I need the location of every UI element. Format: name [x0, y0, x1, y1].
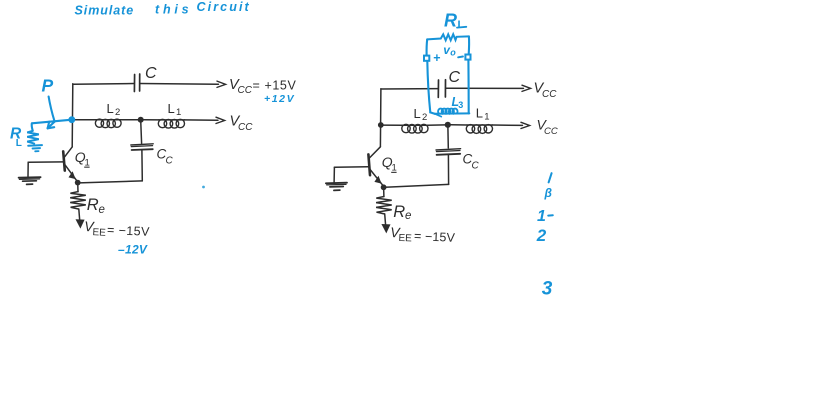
label L2 (left)	[107, 101, 121, 118]
svg-text:CC: CC	[238, 122, 253, 133]
inductor L1 (right)	[466, 125, 492, 134]
probe box left side (blue)	[426, 39, 429, 55]
wire: emitter node into resistor Re	[77, 185, 79, 191]
blue node dot	[68, 116, 75, 123]
svg-text:C: C	[166, 156, 174, 167]
arrowhead VCC mid (right)	[521, 122, 530, 128]
wire: mid rail from node P to L2	[73, 119, 97, 121]
ground (left circuit)	[19, 176, 41, 179]
svg-text:1: 1	[537, 208, 546, 225]
svg-text:L: L	[16, 138, 22, 149]
label VCC = +15V	[229, 77, 296, 96]
transistor Q1 (left): collector lead	[64, 147, 72, 158]
probe box bottom baseline (blue)	[435, 112, 470, 114]
wire: node down to Cc	[140, 123, 143, 144]
label L3 (blue)	[452, 95, 464, 110]
inductor L2 (left)	[95, 119, 121, 128]
svg-text:Simulate: Simulate	[75, 4, 135, 18]
wire: top rail right of capacitor C, to arrow	[140, 83, 219, 86]
terminal square right (blue)	[465, 55, 470, 60]
svg-text:–12V: –12V	[118, 242, 148, 256]
label Vcc mid (right)	[537, 117, 558, 137]
blue wire from node to RL	[32, 120, 72, 124]
svg-text:L: L	[168, 101, 175, 116]
label Re (left)	[87, 196, 105, 216]
label RL (blue, right)	[444, 10, 465, 31]
node: emitter junction (left)	[75, 180, 81, 186]
ground (blue, left)	[28, 144, 42, 147]
svg-text:1: 1	[176, 107, 181, 118]
wire: top rail left of capacitor C	[73, 83, 134, 86]
fragment slash	[549, 173, 552, 182]
label RL (blue, left)	[10, 126, 22, 150]
wire: bottom rail (right)	[385, 184, 449, 187]
svg-text:2: 2	[115, 107, 120, 118]
svg-text:CC: CC	[544, 126, 558, 137]
wire: mid rail to L2 (right)	[381, 124, 403, 126]
svg-text:e: e	[99, 204, 105, 216]
wire: base to ground drop	[28, 161, 63, 163]
terminal square left (blue)	[424, 56, 429, 61]
label Cc (left)	[157, 147, 174, 167]
svg-text:C: C	[145, 65, 157, 82]
resistor Re (left) scribble	[70, 192, 86, 209]
probe box right side (blue)	[468, 36, 471, 54]
label VEE = -15V (left)	[84, 218, 151, 241]
svg-text:C: C	[449, 69, 461, 86]
resistor RL (blue, left)	[27, 131, 39, 144]
transistor Q1 (right): collector lead	[369, 147, 380, 158]
svg-text:CC: CC	[238, 85, 253, 96]
label L1 (right)	[476, 106, 490, 123]
svg-text:+: +	[433, 51, 440, 65]
label Q1 (left)	[75, 149, 90, 168]
label Q1 (right)	[382, 154, 397, 173]
svg-text:2: 2	[422, 112, 427, 123]
svg-text:P: P	[42, 76, 54, 96]
transistor Q1 (left): emitter lead	[65, 164, 78, 181]
label VEE = -15V (right)	[390, 224, 456, 246]
label Vcc top (right)	[534, 81, 558, 100]
wire + arrow down to VEE (left)	[79, 209, 80, 222]
svg-text:R: R	[87, 196, 99, 214]
wire: left vertical (collector riser)	[71, 84, 74, 147]
label Vcc (mid, left circuit)	[230, 114, 254, 133]
svg-text:e: e	[405, 210, 411, 222]
svg-text:R: R	[393, 203, 405, 221]
wire: emitter node into Re (right)	[383, 190, 385, 196]
+ vo - labels (blue)	[433, 43, 456, 65]
arrowhead VCC top rail	[217, 81, 226, 87]
svg-text:= +15V: = +15V	[253, 79, 297, 93]
ground (right circuit)	[326, 182, 347, 185]
svg-text:this: this	[155, 2, 192, 16]
svg-text:3: 3	[542, 279, 553, 300]
label RL subscript underline (blue)	[457, 26, 466, 29]
svg-text:EE: EE	[92, 227, 106, 239]
svg-text:+12V: +12V	[264, 93, 295, 105]
wire: mid rail to arrow (right)	[493, 124, 523, 126]
inductor L1 (left)	[158, 119, 184, 128]
inductor L2 (right)	[402, 124, 428, 133]
capacitor Cc plates (right)	[436, 149, 461, 150]
transistor Q1 (right): emitter lead	[370, 169, 383, 185]
transistor Q1 (right): emitter arrowhead	[374, 176, 381, 184]
svg-text:3: 3	[458, 100, 463, 110]
capacitor C plates	[133, 75, 135, 92]
arrowhead VCC top (right)	[522, 85, 531, 91]
wire: bottom rail to emitter node	[79, 181, 142, 183]
blue probe line from P	[49, 97, 55, 122]
inductor L3 loops (blue)	[438, 109, 457, 114]
svg-text:Circuit: Circuit	[197, 0, 251, 14]
wire: Cc down to bottom rail	[141, 150, 143, 181]
node: junction of mid rail and Cc branch	[138, 117, 144, 123]
label L2 (right)	[414, 106, 428, 123]
svg-text:L: L	[107, 101, 114, 116]
svg-text:R: R	[444, 10, 457, 30]
arrowhead VCC mid rail	[216, 117, 225, 123]
svg-text:C: C	[472, 161, 480, 172]
resistor RL (blue, right, horizontal zigzag)	[427, 34, 469, 40]
wire: base to ground (right)	[334, 166, 368, 169]
wire + arrow down to VEE (right)	[385, 214, 386, 226]
node: emitter junction (right)	[381, 184, 387, 190]
wire: mid rail L2 to node (right)	[428, 124, 446, 126]
svg-text:= −15V: = −15V	[107, 223, 151, 239]
transistor Q1 (left): base bar	[63, 151, 65, 170]
svg-text:1: 1	[484, 112, 489, 123]
wire: mid rail to arrow	[185, 119, 219, 121]
blue arrow at probe tip	[48, 122, 55, 129]
label Cc (right)	[463, 152, 480, 172]
capacitor Cc plates (left)	[131, 144, 153, 145]
transistor Q1 (right): base bar	[368, 154, 370, 175]
svg-text:β: β	[544, 186, 553, 200]
svg-text:L: L	[458, 19, 465, 31]
label Re (right)	[393, 203, 411, 222]
wire: mid rail node to L1	[144, 119, 160, 121]
resistor Re (right) scribble	[376, 197, 392, 214]
svg-text:CC: CC	[542, 89, 557, 100]
wire: Cc down to bottom rail (right)	[447, 155, 449, 184]
title: Simulate this Circuit (blue handwriting)	[75, 0, 251, 17]
wire: left vertical (collector riser, right circuit)	[379, 89, 382, 147]
node: mid junction (right)	[445, 122, 451, 128]
svg-text:EE: EE	[398, 233, 412, 245]
svg-text:o: o	[450, 47, 456, 57]
svg-text:L: L	[414, 106, 421, 121]
wire: mid rail between L2 and node	[121, 119, 138, 121]
svg-text:2: 2	[536, 226, 547, 245]
wire: node to L1 (right)	[451, 124, 468, 126]
wire: node down to Cc (right)	[447, 127, 449, 148]
label L1 (left)	[168, 101, 182, 118]
node: mid-rail left junction (right circuit)	[378, 122, 384, 128]
wire: top rail right of capacitor to arrow (right)	[446, 87, 524, 89]
transistor Q1 (left): emitter arrowhead	[69, 171, 76, 179]
svg-text:L: L	[476, 106, 483, 121]
svg-text:= −15V: = −15V	[414, 229, 456, 245]
blue speck	[202, 186, 205, 189]
capacitor C plates (right)	[437, 80, 439, 97]
wire: top rail left of capacitor C (right)	[381, 88, 438, 90]
